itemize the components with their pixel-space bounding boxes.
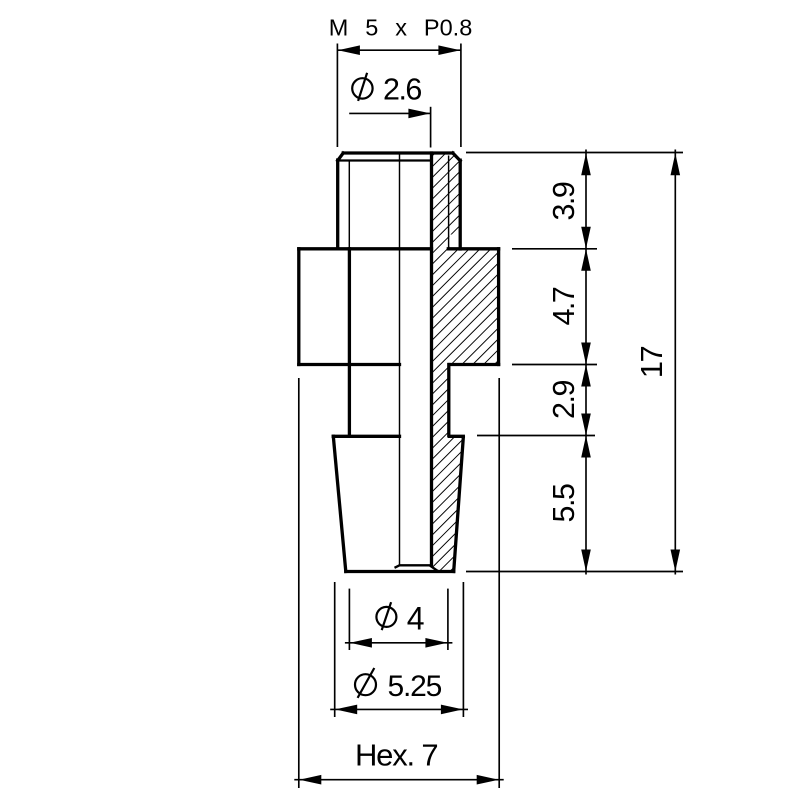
svg-text:2.9: 2.9 [547, 381, 581, 419]
svg-text:3.9: 3.9 [547, 182, 581, 220]
svg-text:2.6: 2.6 [383, 73, 421, 107]
svg-text:5.25: 5.25 [388, 670, 442, 703]
svg-text:M 5 x P0.8: M 5 x P0.8 [329, 15, 473, 41]
svg-text:17: 17 [634, 347, 669, 379]
svg-text:Hex. 7: Hex. 7 [355, 737, 437, 772]
svg-text:5.5: 5.5 [547, 484, 581, 522]
svg-text:4.7: 4.7 [547, 287, 581, 325]
svg-text:4: 4 [407, 600, 425, 636]
